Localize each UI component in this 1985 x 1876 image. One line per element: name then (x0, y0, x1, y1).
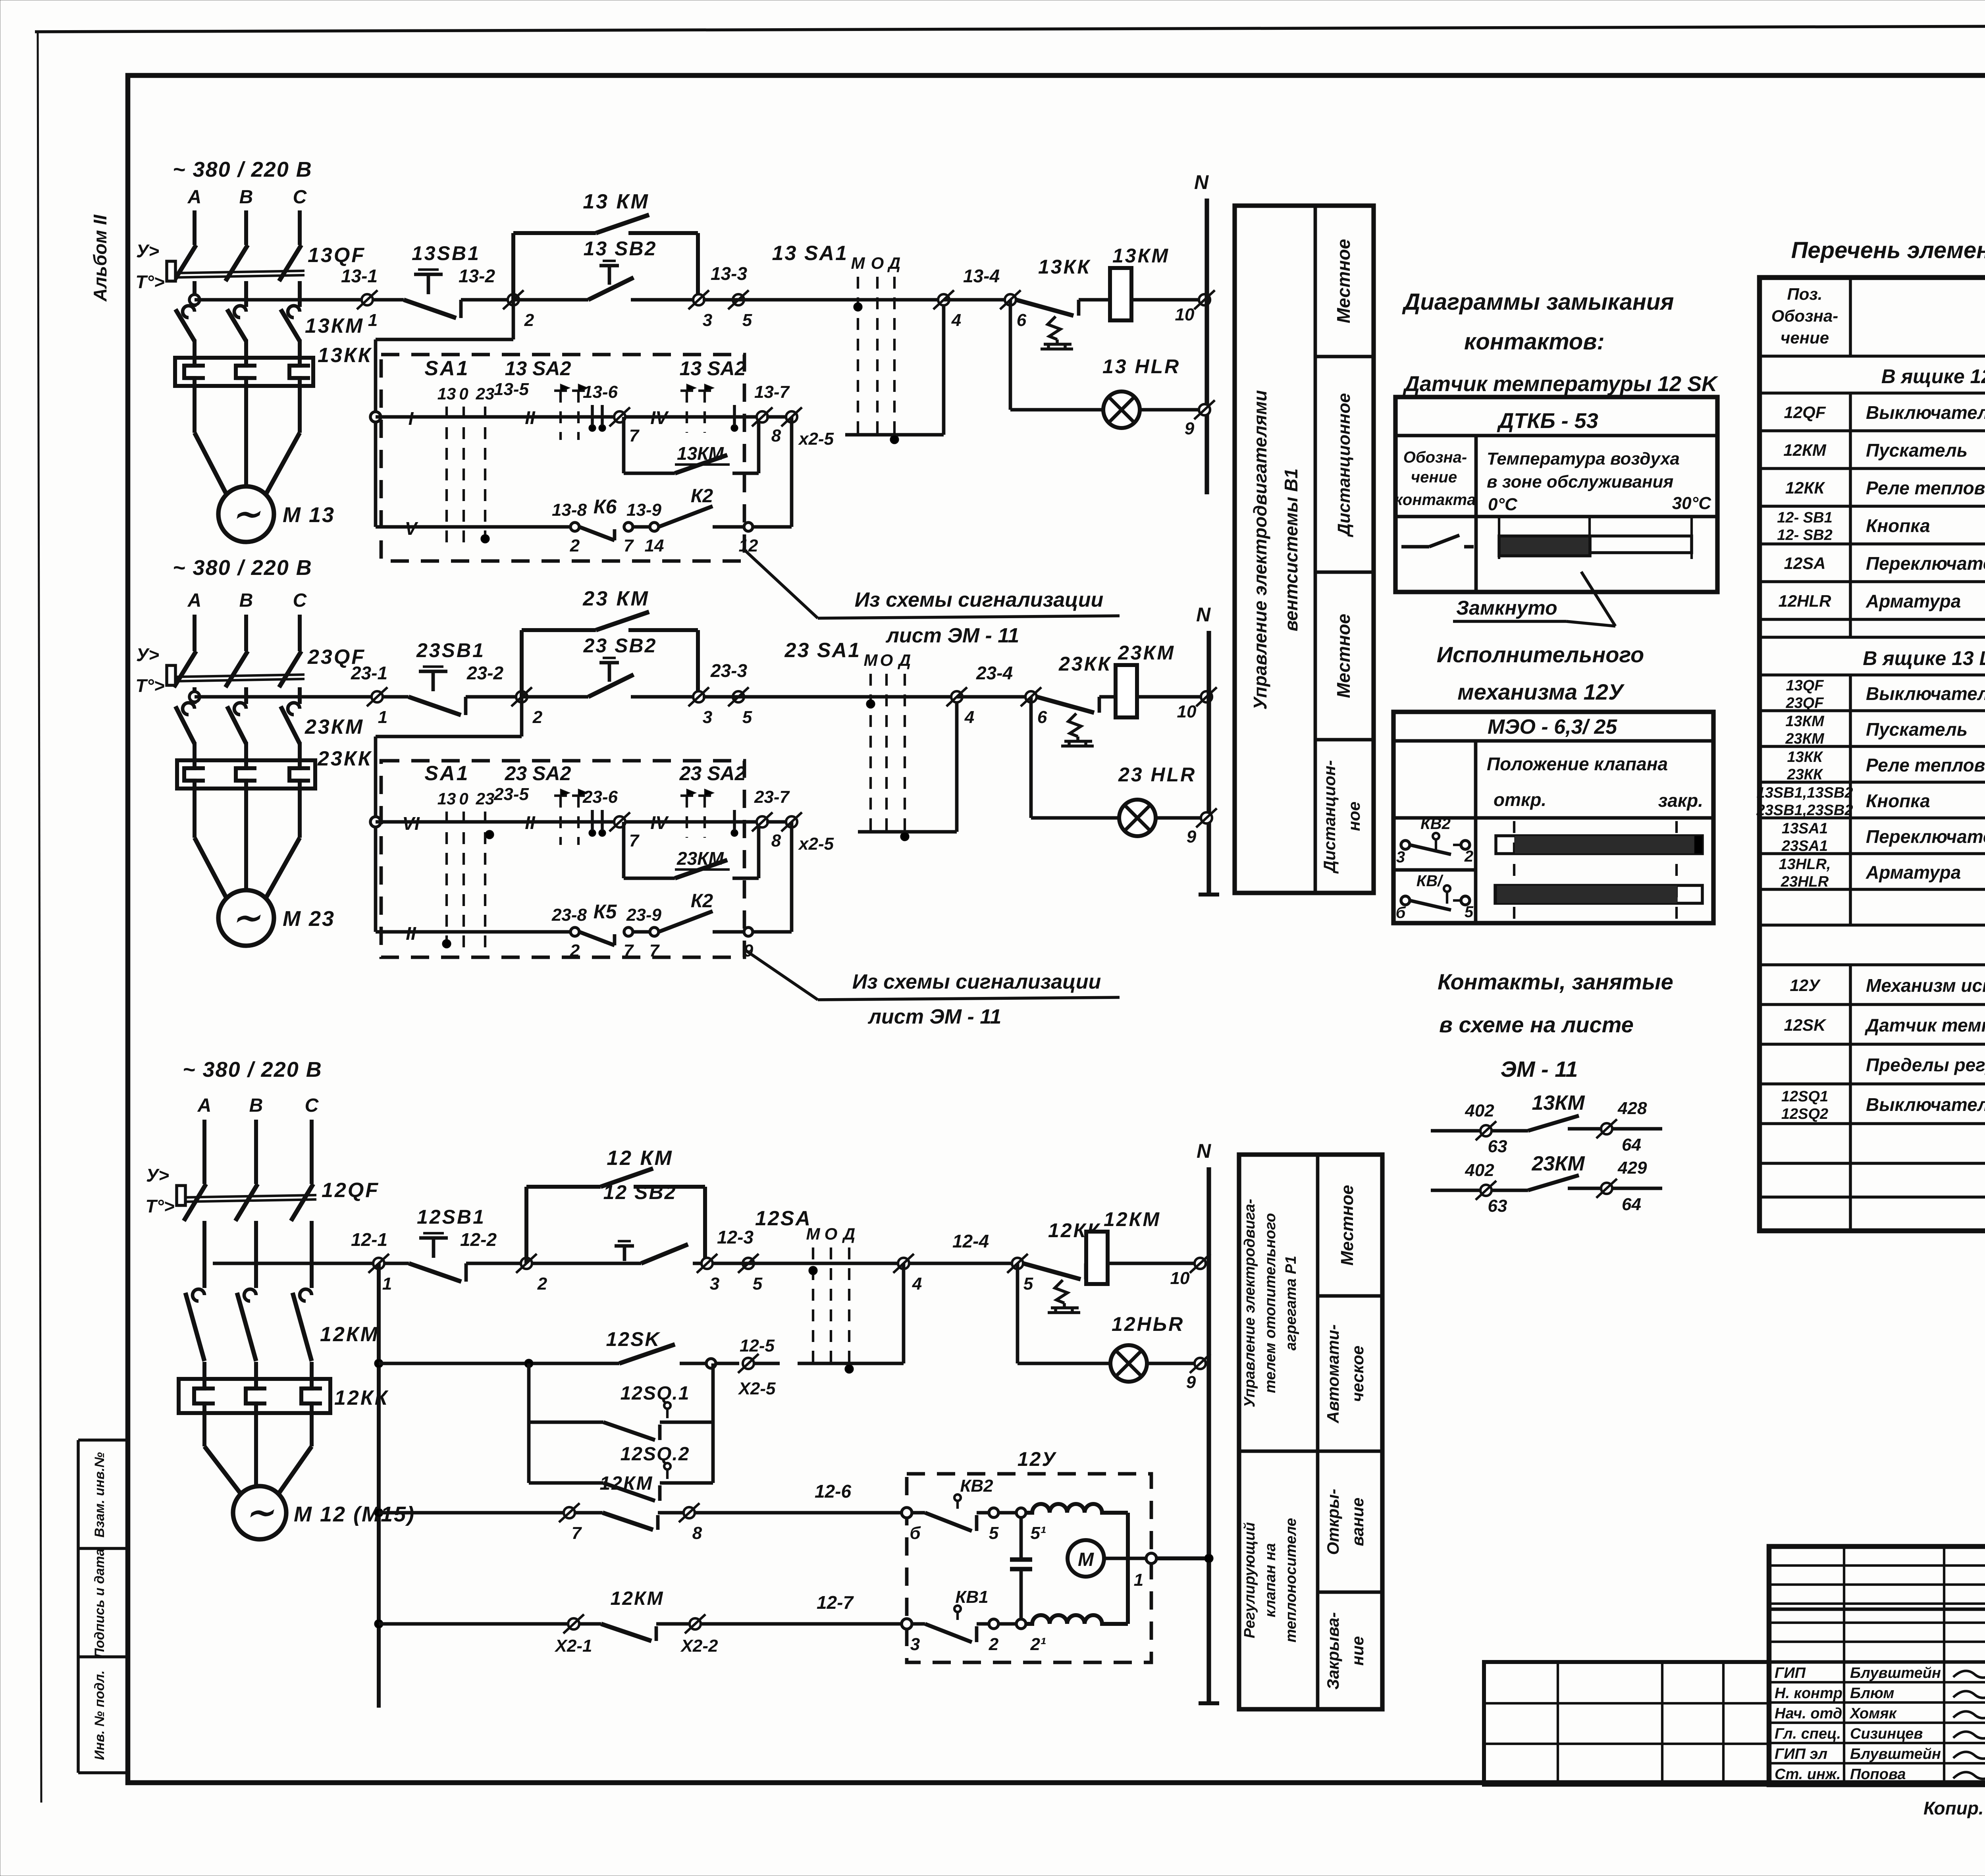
selector bottom connector circuit 12 (798, 1363, 904, 1373)
row 12KK (1785, 478, 1985, 498)
svg-text:12SQ.2: 12SQ.2 (621, 1444, 690, 1465)
DTKB closure bar (1499, 517, 1692, 559)
svg-text:SA1: SA1 (424, 762, 469, 785)
aux contact 13KM bypass loop (624, 417, 759, 473)
lamp branch circuit 12 (12HLR) (1018, 1263, 1209, 1363)
svg-text:А: А (187, 590, 202, 611)
svg-text:13-2: 13-2 (459, 266, 495, 286)
row 12U mechanism (1790, 966, 1985, 1000)
svg-text:13КК: 13КК (1787, 749, 1824, 765)
svg-text:3: 3 (703, 708, 712, 727)
svg-text:Выключатель: Выключатель (1866, 683, 1985, 704)
wire node1 to SB1 23 (383, 695, 409, 699)
node 13 6 (branch) (1000, 290, 1027, 330)
svg-text:Х2-5: Х2-5 (738, 1379, 776, 1398)
label Temperatura vozdukha v zone obsluzhivaniya (1487, 449, 1711, 514)
label Upravlenie elektrodvigatelem otopitelnogo agregata R1 (1241, 1199, 1299, 1407)
row 13QF 23QF (1785, 677, 1985, 711)
selector box SA1 13 (dashed) (381, 355, 744, 561)
svg-text:23HLR: 23HLR (1781, 873, 1829, 890)
svg-text:64: 64 (1622, 1135, 1641, 1155)
wire node4 to node5 circuit 12 (909, 1262, 1012, 1265)
svg-text:13-1: 13-1 (341, 266, 378, 286)
svg-text:Диаграммы замыкания: Диаграммы замыкания (1402, 289, 1674, 315)
svg-text:вентсистемы В1: вентсистемы В1 (1281, 469, 1301, 631)
svg-text:13 HLR: 13 HLR (1102, 355, 1180, 378)
signature row Ст. инж. Попова (1775, 1766, 1985, 1783)
svg-text:М 13: М 13 (283, 503, 335, 527)
contactor 13KM main contacts (175, 306, 364, 358)
selector 23SA1 on rung (784, 639, 957, 841)
row 12KM (1783, 440, 1985, 461)
svg-text:А: А (197, 1095, 212, 1116)
svg-text:Исполнительного: Исполнительного (1437, 642, 1644, 667)
svg-text:5: 5 (989, 1523, 999, 1543)
svg-text:вание: вание (1348, 1498, 1367, 1546)
actuator motor M (1068, 1540, 1147, 1577)
svg-text:Регулирующий: Регулирующий (1241, 1522, 1258, 1638)
limit contact KV1 (902, 1587, 1046, 1654)
aux contact 23KM bypass loop (624, 822, 759, 878)
svg-text:К2: К2 (691, 891, 713, 912)
svg-text:63: 63 (1488, 1196, 1507, 1216)
stop button 13SB1 (404, 242, 480, 318)
svg-text:Откры-: Откры- (1324, 1489, 1342, 1555)
svg-text:Дистанцион-: Дистанцион- (1320, 760, 1339, 873)
svg-text:12SQ.1: 12SQ.1 (621, 1383, 690, 1404)
title block outline (1769, 1546, 1985, 1785)
relay contact К6 and K2 in row V (552, 486, 792, 555)
svg-text:4: 4 (951, 310, 961, 330)
label otkr (1494, 789, 1546, 810)
svg-text:Реле тепловое: Реле тепловое (1866, 755, 1985, 775)
actuator inner vertical (1126, 1513, 1130, 1624)
svg-text:Управление электродвигателями: Управление электродвигателями (1250, 390, 1270, 710)
svg-text:∼: ∼ (232, 899, 261, 936)
label Polozhenie klapana (1487, 754, 1668, 774)
svg-text:23-7: 23-7 (754, 787, 790, 807)
motor М 12 (М15) (233, 1486, 415, 1539)
svg-text:23КК: 23КК (1787, 766, 1824, 783)
node 13-6 (583, 382, 640, 445)
svg-text:Т°>: Т°> (135, 675, 164, 696)
svg-text:12 SB2: 12 SB2 (603, 1181, 677, 1203)
svg-text:Инв. № подл.: Инв. № подл. (92, 1670, 107, 1760)
svg-text:23КМ: 23КМ (676, 848, 724, 869)
svg-text:С: С (293, 187, 307, 208)
svg-text:12У: 12У (1790, 976, 1821, 995)
svg-text:Обозна-: Обозна- (1403, 449, 1467, 466)
svg-text:Н. контр.: Н. контр. (1775, 1685, 1847, 1702)
svg-text:~ 380 / 220 В: ~ 380 / 220 В (183, 1058, 322, 1082)
left vertical feeder circuit 12 (374, 1263, 383, 1708)
svg-text:Т°>: Т°> (145, 1196, 174, 1217)
left margin column boxes (78, 1440, 128, 1773)
svg-text:Альбом II: Альбом II (90, 214, 110, 302)
label Mestnoe 3 (1337, 1185, 1357, 1265)
svg-text:клапан на: клапан на (1262, 1543, 1279, 1618)
svg-text:402: 402 (1465, 1101, 1494, 1120)
svg-text:Дистанционное: Дистанционное (1334, 393, 1354, 538)
svg-text:Пускатель: Пускатель (1866, 440, 1968, 461)
svg-text:О: О (825, 1224, 838, 1243)
svg-text:3: 3 (1396, 848, 1405, 866)
terminal X2-5 (766, 407, 834, 527)
row 13SA1 23SA1 (1781, 820, 1985, 854)
thermal relay 12KK heaters (179, 1379, 389, 1413)
svg-text:телем отопительного: телем отопительного (1262, 1213, 1279, 1393)
svg-text:В: В (239, 590, 253, 611)
svg-text:в зоне обслуживания: в зоне обслуживания (1487, 472, 1673, 492)
svg-text:23КК: 23КК (317, 747, 372, 770)
svg-text:13: 13 (437, 789, 456, 808)
svg-text:I: I (409, 408, 414, 429)
svg-text:23SB1,23SB2: 23SB1,23SB2 (1756, 802, 1853, 819)
label SA1 (424, 357, 469, 380)
svg-text:23-1: 23-1 (351, 663, 387, 683)
table section V yashchike 13 ShU (1863, 647, 1985, 669)
svg-text:6: 6 (1017, 310, 1027, 330)
svg-text:7: 7 (629, 831, 640, 850)
svg-text:лист ЭМ - 11: лист ЭМ - 11 (867, 1005, 1002, 1028)
row 12-6 wire (379, 1511, 603, 1515)
svg-text:Нач. отд.: Нач. отд. (1775, 1705, 1846, 1722)
svg-text:13SB1: 13SB1 (412, 242, 480, 264)
svg-text:Выключатель: Выключатель (1866, 402, 1985, 423)
svg-text:12-3: 12-3 (717, 1227, 754, 1247)
svg-text:М: М (1078, 1549, 1094, 1570)
svg-text:КВ/: КВ/ (1416, 872, 1443, 890)
svg-text:IV: IV (650, 812, 669, 833)
svg-text:Ст. инж.: Ст. инж. (1775, 1766, 1841, 1783)
node 8 row 12-6 (679, 1481, 902, 1543)
label Zakryvanie (1324, 1612, 1367, 1689)
svg-text:12SA: 12SA (1784, 554, 1825, 573)
svg-text:402: 402 (1465, 1161, 1494, 1180)
svg-text:К6: К6 (594, 496, 617, 518)
svg-text:II: II (525, 407, 536, 428)
svg-text:10: 10 (1177, 702, 1197, 721)
svg-text:12-6: 12-6 (815, 1481, 851, 1502)
svg-text:5: 5 (1023, 1274, 1033, 1294)
svg-text:Арматура: Арматура (1866, 862, 1961, 883)
phase labels A B C circuit 12 (197, 1095, 319, 1116)
node 23-3 and 5 (688, 660, 850, 727)
svg-text:Гл. спец.: Гл. спец. (1775, 1726, 1841, 1742)
svg-text:В: В (239, 187, 253, 208)
label Regulyruyushchiy klapan na teplonositele (1241, 1518, 1299, 1643)
svg-text:Местное: Местное (1333, 239, 1354, 323)
wire node1 to SB1 13 (373, 298, 404, 302)
svg-text:2: 2 (570, 536, 580, 555)
row 13KK 23KK (1787, 749, 1985, 783)
page outer border left (38, 32, 41, 1803)
svg-text:12SB1: 12SB1 (417, 1206, 486, 1228)
limit switch KV2 contact (1396, 815, 1473, 866)
svg-text:II: II (525, 812, 536, 833)
svg-text:23 КМ: 23 КМ (582, 587, 649, 610)
circuit breaker 12QF (177, 1120, 380, 1271)
row 12SA (1784, 553, 1985, 574)
svg-text:Механизм исполнительный МЭО: Механизм исполнительный МЭО - 6.3 /25 (1866, 975, 1985, 996)
svg-text:8: 8 (771, 426, 781, 445)
svg-text:У>: У> (136, 644, 159, 665)
signature row Н. контр. Блюм (1775, 1685, 1985, 1702)
terminal 12-5 / X2-5 (738, 1336, 780, 1398)
stop button 23SB1 (409, 639, 485, 715)
aux contact 12KM in row 12-7 (601, 1588, 691, 1641)
actuator winding lower (1026, 1615, 1128, 1624)
wire coil to N circuit 23 (1137, 695, 1209, 699)
svg-text:чение: чение (1411, 469, 1457, 486)
switch 13SA2 group 1 (505, 357, 606, 440)
svg-text:13QF: 13QF (308, 244, 366, 267)
signature row ГИП эл Блувштейн (1775, 1746, 1985, 1762)
svg-text:13КМ: 13КМ (305, 314, 364, 337)
KV1 position bar (1495, 885, 1702, 903)
wire node 4 to node 6 circuit 23 (957, 695, 1031, 699)
svg-text:12-5: 12-5 (740, 1336, 775, 1355)
svg-text:Блувштейн: Блувштейн (1850, 1746, 1941, 1762)
svg-text:13КМ: 13КМ (1112, 245, 1170, 267)
svg-text:Из схемы сигнализации: Из схемы сигнализации (852, 970, 1101, 993)
motor М 13 (218, 486, 335, 542)
svg-text:23КК: 23КК (1058, 653, 1112, 675)
margin label Inv No podl (92, 1670, 107, 1760)
row predely regulirovaniya (1866, 1055, 1985, 1075)
svg-text:12HLR: 12HLR (1778, 592, 1831, 610)
note Kopir (1923, 1798, 1985, 1851)
circuit breaker 13QF (167, 210, 366, 307)
row 13KM 23KM (1785, 713, 1985, 747)
wire to node 23-2 (466, 695, 521, 699)
wire contact to coil 13 (1079, 298, 1110, 302)
svg-text:К5: К5 (594, 900, 617, 923)
svg-text:N: N (1197, 1140, 1211, 1162)
svg-text:VI: VI (402, 813, 420, 834)
selector row II wire (376, 923, 572, 948)
svg-text:12SK: 12SK (606, 1328, 661, 1350)
signature row Нач. отд. Хомяк (1775, 1705, 1985, 1722)
svg-text:Кнопка: Кнопка (1866, 791, 1930, 811)
svg-text:КВ2: КВ2 (1420, 815, 1451, 833)
node 5 branch circuit 12 (1007, 1254, 1033, 1294)
svg-text:3: 3 (710, 1274, 719, 1294)
label Avtomaticheskoe (1324, 1324, 1367, 1423)
svg-text:12КК: 12КК (334, 1386, 389, 1409)
svg-text:1: 1 (368, 310, 378, 330)
selector position lines 13 0 23 (437, 380, 529, 549)
limit switch KV1 contact (1396, 872, 1474, 922)
svg-text:контактов:: контактов: (1464, 329, 1605, 355)
overcurrent marks U> T> circuit 23 (135, 644, 164, 696)
svg-text:23: 23 (476, 384, 495, 403)
svg-text:К2: К2 (691, 486, 713, 507)
svg-text:Попова: Попова (1850, 1766, 1906, 1783)
row 12QF (1784, 402, 1985, 423)
wire from node 23-2 down to selector rows (376, 697, 522, 932)
terminal X2-2 (680, 1592, 902, 1656)
thermal contact 13KK (1016, 256, 1091, 349)
svg-text:10: 10 (1170, 1269, 1190, 1288)
svg-text:Арматура: Арматура (1866, 591, 1961, 611)
svg-text:КВ2: КВ2 (960, 1476, 993, 1496)
svg-text:б: б (910, 1523, 921, 1543)
switch 23SA2 group 2 (679, 762, 746, 838)
svg-text:0: 0 (459, 789, 468, 808)
contactor 23KM main contacts (175, 703, 364, 760)
svg-text:Взам. инв.№: Взам. инв.№ (92, 1452, 107, 1537)
svg-text:в схеме на листе: в схеме на листе (1439, 1012, 1634, 1037)
row 12-SB1 12-SB2 (1777, 509, 1985, 544)
svg-text:Хомяк: Хомяк (1849, 1705, 1897, 1722)
dashed guides otkr zakr (1514, 821, 1677, 920)
svg-text:SA1: SA1 (424, 357, 469, 380)
svg-text:64: 64 (1622, 1195, 1641, 1214)
node 23-2 (466, 663, 543, 727)
power feed ~380/220V label circuit 12 (183, 1058, 322, 1082)
node 23-6 (582, 787, 640, 850)
svg-text:2: 2 (570, 941, 580, 960)
svg-text:М: М (806, 1224, 821, 1243)
svg-text:4: 4 (964, 708, 974, 727)
svg-text:13-5: 13-5 (494, 380, 529, 399)
power feed ~380/220V label circuit 13 (173, 158, 312, 181)
thermostat row 12SK (379, 1328, 739, 1368)
svg-text:10: 10 (1175, 305, 1195, 324)
svg-text:Д: Д (842, 1224, 855, 1243)
svg-text:23 SA2: 23 SA2 (679, 762, 746, 785)
bottom-left revision table (1484, 1662, 1769, 1785)
svg-text:II: II (406, 923, 416, 944)
svg-text:Выключатель конечный ВК-200: Выключатель конечный ВК-200 АУ2 Исп. 2 (1866, 1094, 1985, 1115)
svg-text:КВ1: КВ1 (955, 1587, 988, 1607)
node 9 circuit 13 (1185, 400, 1215, 438)
svg-text:N: N (1196, 603, 1211, 626)
wire node1 to SB1 circuit 12 (384, 1262, 409, 1265)
svg-text:Замкнуто: Замкнуто (1456, 597, 1557, 619)
label Upravlenie elektrodvigatelyami ventsistemy V1 (1250, 390, 1301, 710)
svg-text:Кнопка: Кнопка (1866, 515, 1930, 536)
svg-text:откр.: откр. (1494, 789, 1546, 810)
svg-text:Датчик температуры 12 SK: Датчик температуры 12 SK (1403, 372, 1719, 396)
label Mestnoe 2 (1333, 614, 1354, 698)
svg-text:1: 1 (1134, 1570, 1143, 1590)
svg-text:ДТКБ - 53: ДТКБ - 53 (1497, 409, 1598, 433)
busy contact 13KM (1431, 1091, 1662, 1156)
node 13-7 (752, 382, 790, 445)
wire coil to N circuit 12 (1108, 1262, 1209, 1265)
wire from node 13-2 down to selector rows (376, 300, 513, 527)
capacitor in actuator (1010, 1517, 1032, 1624)
svg-text:13КМ: 13КМ (1532, 1091, 1585, 1114)
svg-text:12КМ: 12КМ (1783, 441, 1827, 459)
svg-text:30°С: 30°С (1672, 494, 1712, 513)
svg-text:Х2-2: Х2-2 (680, 1636, 718, 1656)
svg-text:У>: У> (136, 241, 159, 261)
svg-text:Переключатель: Переключатель (1866, 826, 1985, 847)
node 13-2 (459, 266, 534, 330)
svg-text:5: 5 (742, 708, 752, 727)
node 12-4 (893, 1231, 989, 1363)
wire to node 13-2 (461, 298, 513, 302)
svg-text:~ 380 / 220 В: ~ 380 / 220 В (173, 158, 312, 181)
table section V yashchike 12 ShU (1881, 365, 1985, 388)
svg-text:13 SA2: 13 SA2 (505, 357, 571, 380)
svg-text:Х2-1: Х2-1 (554, 1636, 592, 1656)
svg-text:М: М (851, 254, 865, 272)
svg-text:7: 7 (629, 426, 640, 445)
svg-text:23-3: 23-3 (710, 660, 747, 681)
svg-text:9: 9 (1187, 827, 1197, 846)
leader note Iz skhemy signalizatsii list EM-11 (744, 550, 1120, 647)
svg-text:Пускатель: Пускатель (1866, 719, 1968, 740)
stop button 12SB1 (409, 1206, 486, 1282)
wire contact to coil 23 (1099, 695, 1116, 699)
aux contact 13KM (seal-in bridge) (513, 190, 698, 300)
svg-text:23КМ: 23КМ (1785, 731, 1825, 747)
svg-text:V: V (405, 518, 418, 539)
svg-text:М: М (864, 651, 878, 669)
svg-text:13КК: 13КК (318, 344, 372, 367)
selector row V wire (376, 518, 572, 543)
row 12SQ1 12SQ2 (1781, 1088, 1985, 1122)
svg-text:ГИП эл: ГИП эл (1775, 1746, 1827, 1762)
svg-text:7: 7 (572, 1523, 582, 1543)
node 9 circuit 12 (1186, 1354, 1210, 1392)
selector box SA1 23 (dashed) (381, 761, 744, 957)
overcurrent marks U> T> circuit 13 (135, 241, 164, 292)
node 10 circuit 23 (1177, 687, 1217, 721)
thermal contact 23KK (1037, 653, 1112, 746)
indicator lamp 13 HLR (1102, 355, 1180, 428)
svg-text:8: 8 (692, 1523, 702, 1543)
aux contact 12KM in row 12-6 (600, 1473, 684, 1530)
contactor coil 12KM (1086, 1208, 1161, 1284)
svg-text:закр.: закр. (1658, 790, 1703, 811)
svg-text:0: 0 (459, 384, 468, 403)
svg-text:Автомати-: Автомати- (1324, 1324, 1342, 1423)
label Oboznachenie kontakta (1395, 449, 1476, 509)
svg-text:~ 380 / 220 В: ~ 380 / 220 В (173, 556, 312, 580)
svg-text:МЭО - 6,3/ 25: МЭО - 6,3/ 25 (1488, 715, 1617, 738)
svg-text:теплоносителе: теплоносителе (1283, 1518, 1299, 1643)
svg-text:23КМ: 23КМ (1531, 1152, 1585, 1175)
svg-text:23-5: 23-5 (493, 785, 529, 804)
table header Poz Oboznachenie (1771, 285, 1838, 347)
svg-text:12SK: 12SK (1784, 1016, 1827, 1034)
svg-text:12SA: 12SA (755, 1207, 811, 1230)
limit switch ladder verticals (529, 1363, 713, 1483)
selector 12SA on rung (755, 1207, 898, 1363)
label Mestnoe 1 (1333, 239, 1354, 323)
svg-text:23 SB2: 23 SB2 (583, 634, 657, 657)
control rung wire circuit 13 (189, 295, 362, 305)
heading Kontakty zanyatye v skheme na liste EM-11 (1438, 969, 1673, 1082)
svg-text:12QF: 12QF (1784, 403, 1826, 422)
label Otkryvanie (1324, 1489, 1367, 1555)
svg-text:23 SA2: 23 SA2 (505, 762, 571, 785)
svg-text:ГИП: ГИП (1775, 1665, 1806, 1681)
actuator winding upper (1026, 1504, 1128, 1513)
svg-text:агрегата Р1: агрегата Р1 (1283, 1256, 1299, 1351)
svg-text:12-4: 12-4 (952, 1231, 989, 1251)
svg-text:12-1: 12-1 (351, 1229, 387, 1250)
actuator 12U dashed box (907, 1448, 1151, 1662)
circuit breaker 23QF (167, 615, 366, 704)
wire to coil 12KM (1086, 1262, 1091, 1265)
signature row Гл. спец. Сизинцев (1775, 1726, 1985, 1742)
